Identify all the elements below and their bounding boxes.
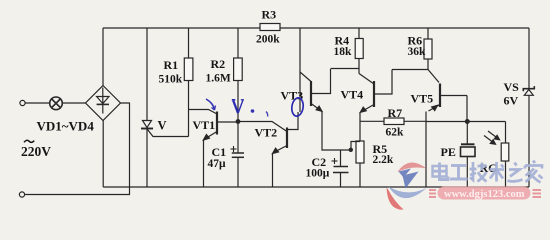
wire R1 bottom <box>188 81 190 137</box>
wire node A to VT2 base <box>238 122 287 132</box>
wire VT3 emitter down <box>322 111 351 150</box>
svg-text:VT1: VT1 <box>193 118 216 132</box>
wire C2 bottom to rail <box>340 173 342 188</box>
wire R5 bottom to rail <box>359 163 361 187</box>
wire VT2 emitter to rail <box>272 153 274 187</box>
watermark text gong <box>450 166 468 180</box>
wire R1 top <box>188 28 190 58</box>
wire R6 bottom <box>427 59 429 70</box>
terminal upper AC <box>20 100 25 105</box>
wire bottom rail <box>103 186 529 188</box>
svg-text:220V: 220V <box>21 144 51 159</box>
svg-text:www.dgjs123.com: www.dgjs123.com <box>444 189 525 200</box>
svg-text:R3: R3 <box>262 8 277 22</box>
watermark text dian <box>433 163 449 180</box>
svg-text:1.6M: 1.6M <box>206 73 231 85</box>
wire VT3 collector diagonal <box>300 72 311 82</box>
wire lamp to bridge <box>62 102 85 104</box>
svg-text:VT5: VT5 <box>411 92 434 106</box>
resistor R7 <box>384 118 404 125</box>
svg-text:200k: 200k <box>256 34 280 46</box>
blue annotation dot <box>251 109 255 113</box>
zener diode VS <box>523 86 534 95</box>
wire upper AC lead <box>25 102 49 104</box>
resistor R1 <box>184 58 193 81</box>
watermark text ji <box>470 162 488 182</box>
wire VT4 base to R6 bottom <box>392 69 428 71</box>
wire VT1 emitter to rail <box>203 140 205 188</box>
blue annotation ellipse <box>291 97 305 117</box>
svg-text:VD1~VD4: VD1~VD4 <box>37 119 95 134</box>
transistor VT2 <box>273 112 299 154</box>
wire VS branch top <box>528 28 530 89</box>
wire VS bottom to rail <box>528 95 530 187</box>
wire C2 top <box>340 150 342 167</box>
svg-text:R7: R7 <box>388 106 403 120</box>
transistor VT4 <box>359 70 392 113</box>
svg-text:VT4: VT4 <box>341 88 364 102</box>
wire R7 right <box>404 120 426 122</box>
wire VT5 emitter down <box>425 112 427 188</box>
svg-text:2.2k: 2.2k <box>373 154 394 166</box>
transistor VT1 <box>189 110 239 141</box>
watermark url band <box>429 187 541 200</box>
watermark text jia <box>525 161 543 183</box>
terminal lower AC <box>19 192 24 197</box>
wire VT5 collector down <box>466 96 468 122</box>
node B junction C2 wire <box>349 148 353 152</box>
wire emitter node to RG <box>426 121 506 123</box>
label ~220V <box>21 140 51 159</box>
wire R7 left <box>360 120 384 122</box>
wire top rail right segment <box>280 27 529 29</box>
svg-text:47μ: 47μ <box>208 158 227 170</box>
svg-text:VS: VS <box>504 80 520 94</box>
capacitor C2 <box>332 158 349 173</box>
wire lower AC lead <box>25 103 129 195</box>
blue annotation V <box>232 100 244 113</box>
resistor R4 <box>355 39 363 59</box>
svg-text:510k: 510k <box>159 74 183 86</box>
wire zener anode to R1 branch <box>148 130 189 137</box>
wire R2 top <box>237 28 239 58</box>
wire VT3 emitter jog to R5 <box>351 142 360 151</box>
svg-text:100μ: 100μ <box>306 168 330 180</box>
resistor R5 <box>356 141 364 163</box>
wire VT4 emitter to R5 <box>359 112 361 141</box>
svg-text:R1: R1 <box>164 58 179 72</box>
node A junction R2 VT1 C1 <box>236 119 241 124</box>
piezo PE <box>461 122 476 188</box>
resistor R2 <box>234 58 243 81</box>
wire zener bottom to rail <box>146 129 148 188</box>
resistor R6 <box>424 39 432 59</box>
svg-text:C1: C1 <box>212 145 227 159</box>
svg-text:6V: 6V <box>504 94 519 108</box>
wire node A to C1 <box>237 122 239 153</box>
wire R4 top <box>358 28 360 39</box>
capacitor C1 <box>231 146 245 157</box>
lamp <box>50 97 63 110</box>
bridge rectifier VD1~VD4 <box>86 86 121 121</box>
svg-text:18k: 18k <box>334 46 353 58</box>
svg-text:62k: 62k <box>386 127 405 139</box>
wire R6 top <box>427 28 429 39</box>
photoresistor RG <box>484 122 509 188</box>
blue annotation swoosh near VT1 <box>206 99 216 110</box>
wire zener branch top <box>146 28 148 121</box>
wire bridge top to rail <box>102 28 104 86</box>
zener diode V <box>141 121 153 129</box>
svg-text:VT3: VT3 <box>281 89 304 103</box>
resistor R3 <box>260 24 280 31</box>
svg-text:VT2: VT2 <box>255 126 278 140</box>
blue annotation dash <box>266 112 268 117</box>
transistor VT3 <box>311 69 331 111</box>
svg-text:R2: R2 <box>211 57 226 71</box>
wire top rail left segment <box>103 27 260 29</box>
svg-text:PE: PE <box>441 145 456 159</box>
wire R4 bottom <box>358 59 360 74</box>
transistor VT5 <box>428 70 467 112</box>
wire C1 to rail <box>237 157 239 187</box>
svg-text:36k: 36k <box>408 46 427 58</box>
svg-text:V: V <box>158 119 167 133</box>
wire R2 bottom <box>237 81 239 122</box>
watermark text shu <box>490 162 505 182</box>
watermark logo <box>387 163 427 210</box>
watermark text zhi <box>508 163 523 182</box>
wire bridge bottom to rail <box>102 121 104 188</box>
wire R3 drop to VT3 collector and VT2 collector <box>299 28 301 112</box>
wire VT3 base to R4 bottom <box>331 68 360 70</box>
node C junction PE collector <box>465 119 470 124</box>
